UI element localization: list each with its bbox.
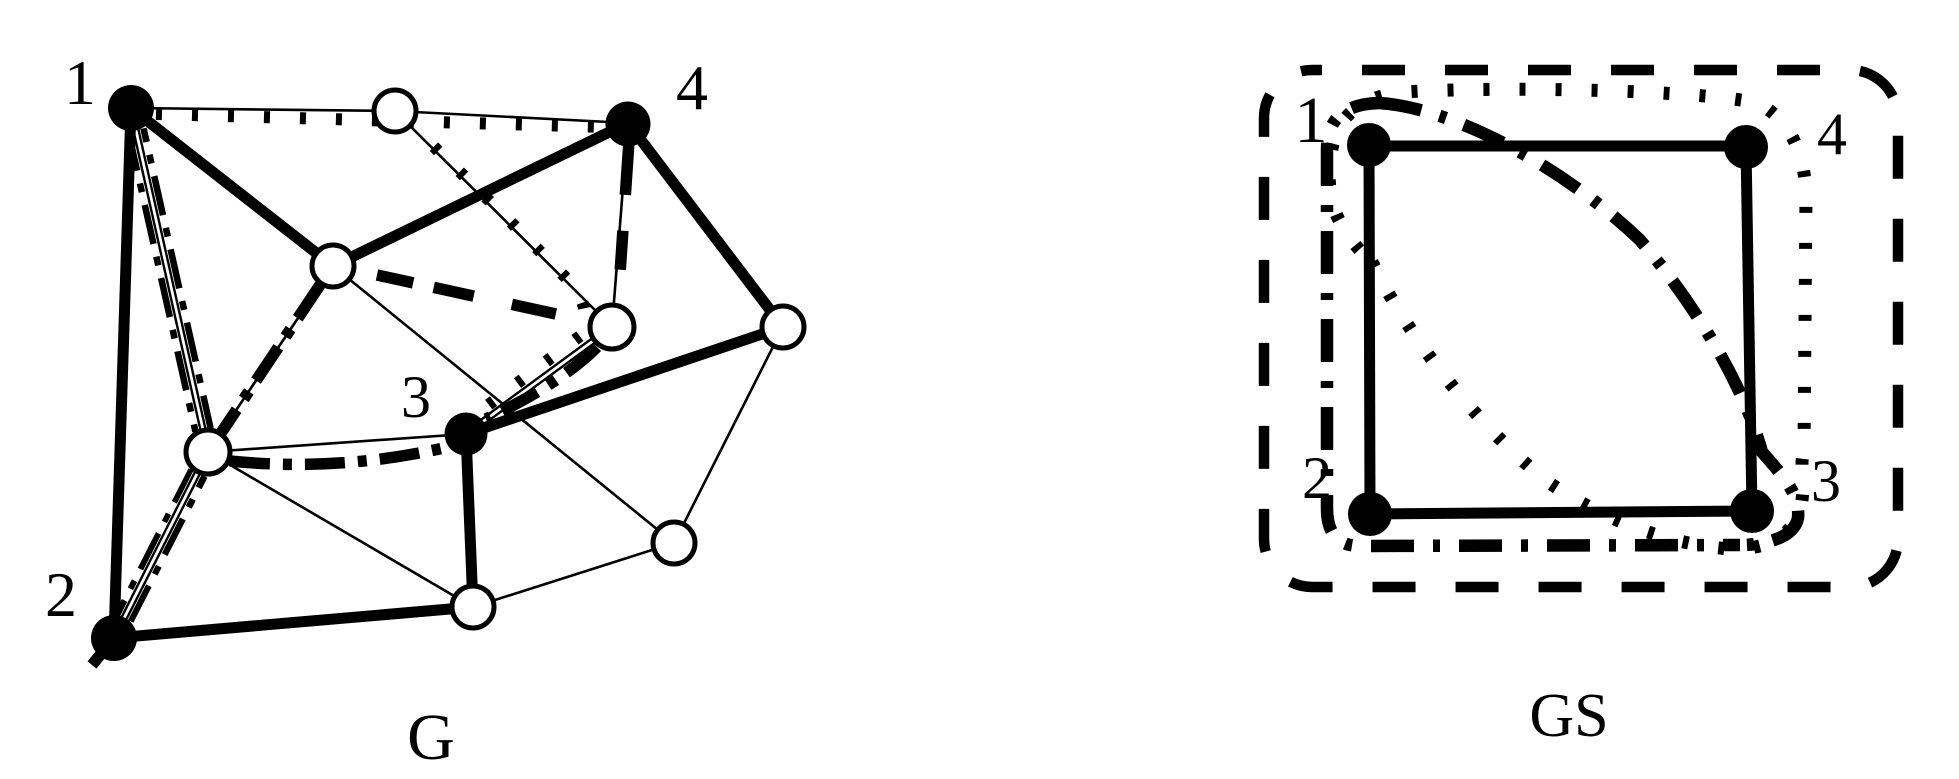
svg-text:1: 1 bbox=[64, 47, 96, 118]
svg-text:2: 2 bbox=[45, 559, 77, 630]
svg-text:GS: GS bbox=[1529, 682, 1608, 750]
svg-text:1: 1 bbox=[1295, 84, 1328, 157]
svg-text:4: 4 bbox=[676, 52, 708, 123]
svg-text:3: 3 bbox=[1811, 448, 1841, 514]
svg-text:2: 2 bbox=[1302, 445, 1332, 511]
svg-text:4: 4 bbox=[1817, 101, 1847, 167]
svg-text:3: 3 bbox=[401, 364, 431, 430]
svg-text:G: G bbox=[407, 701, 455, 774]
